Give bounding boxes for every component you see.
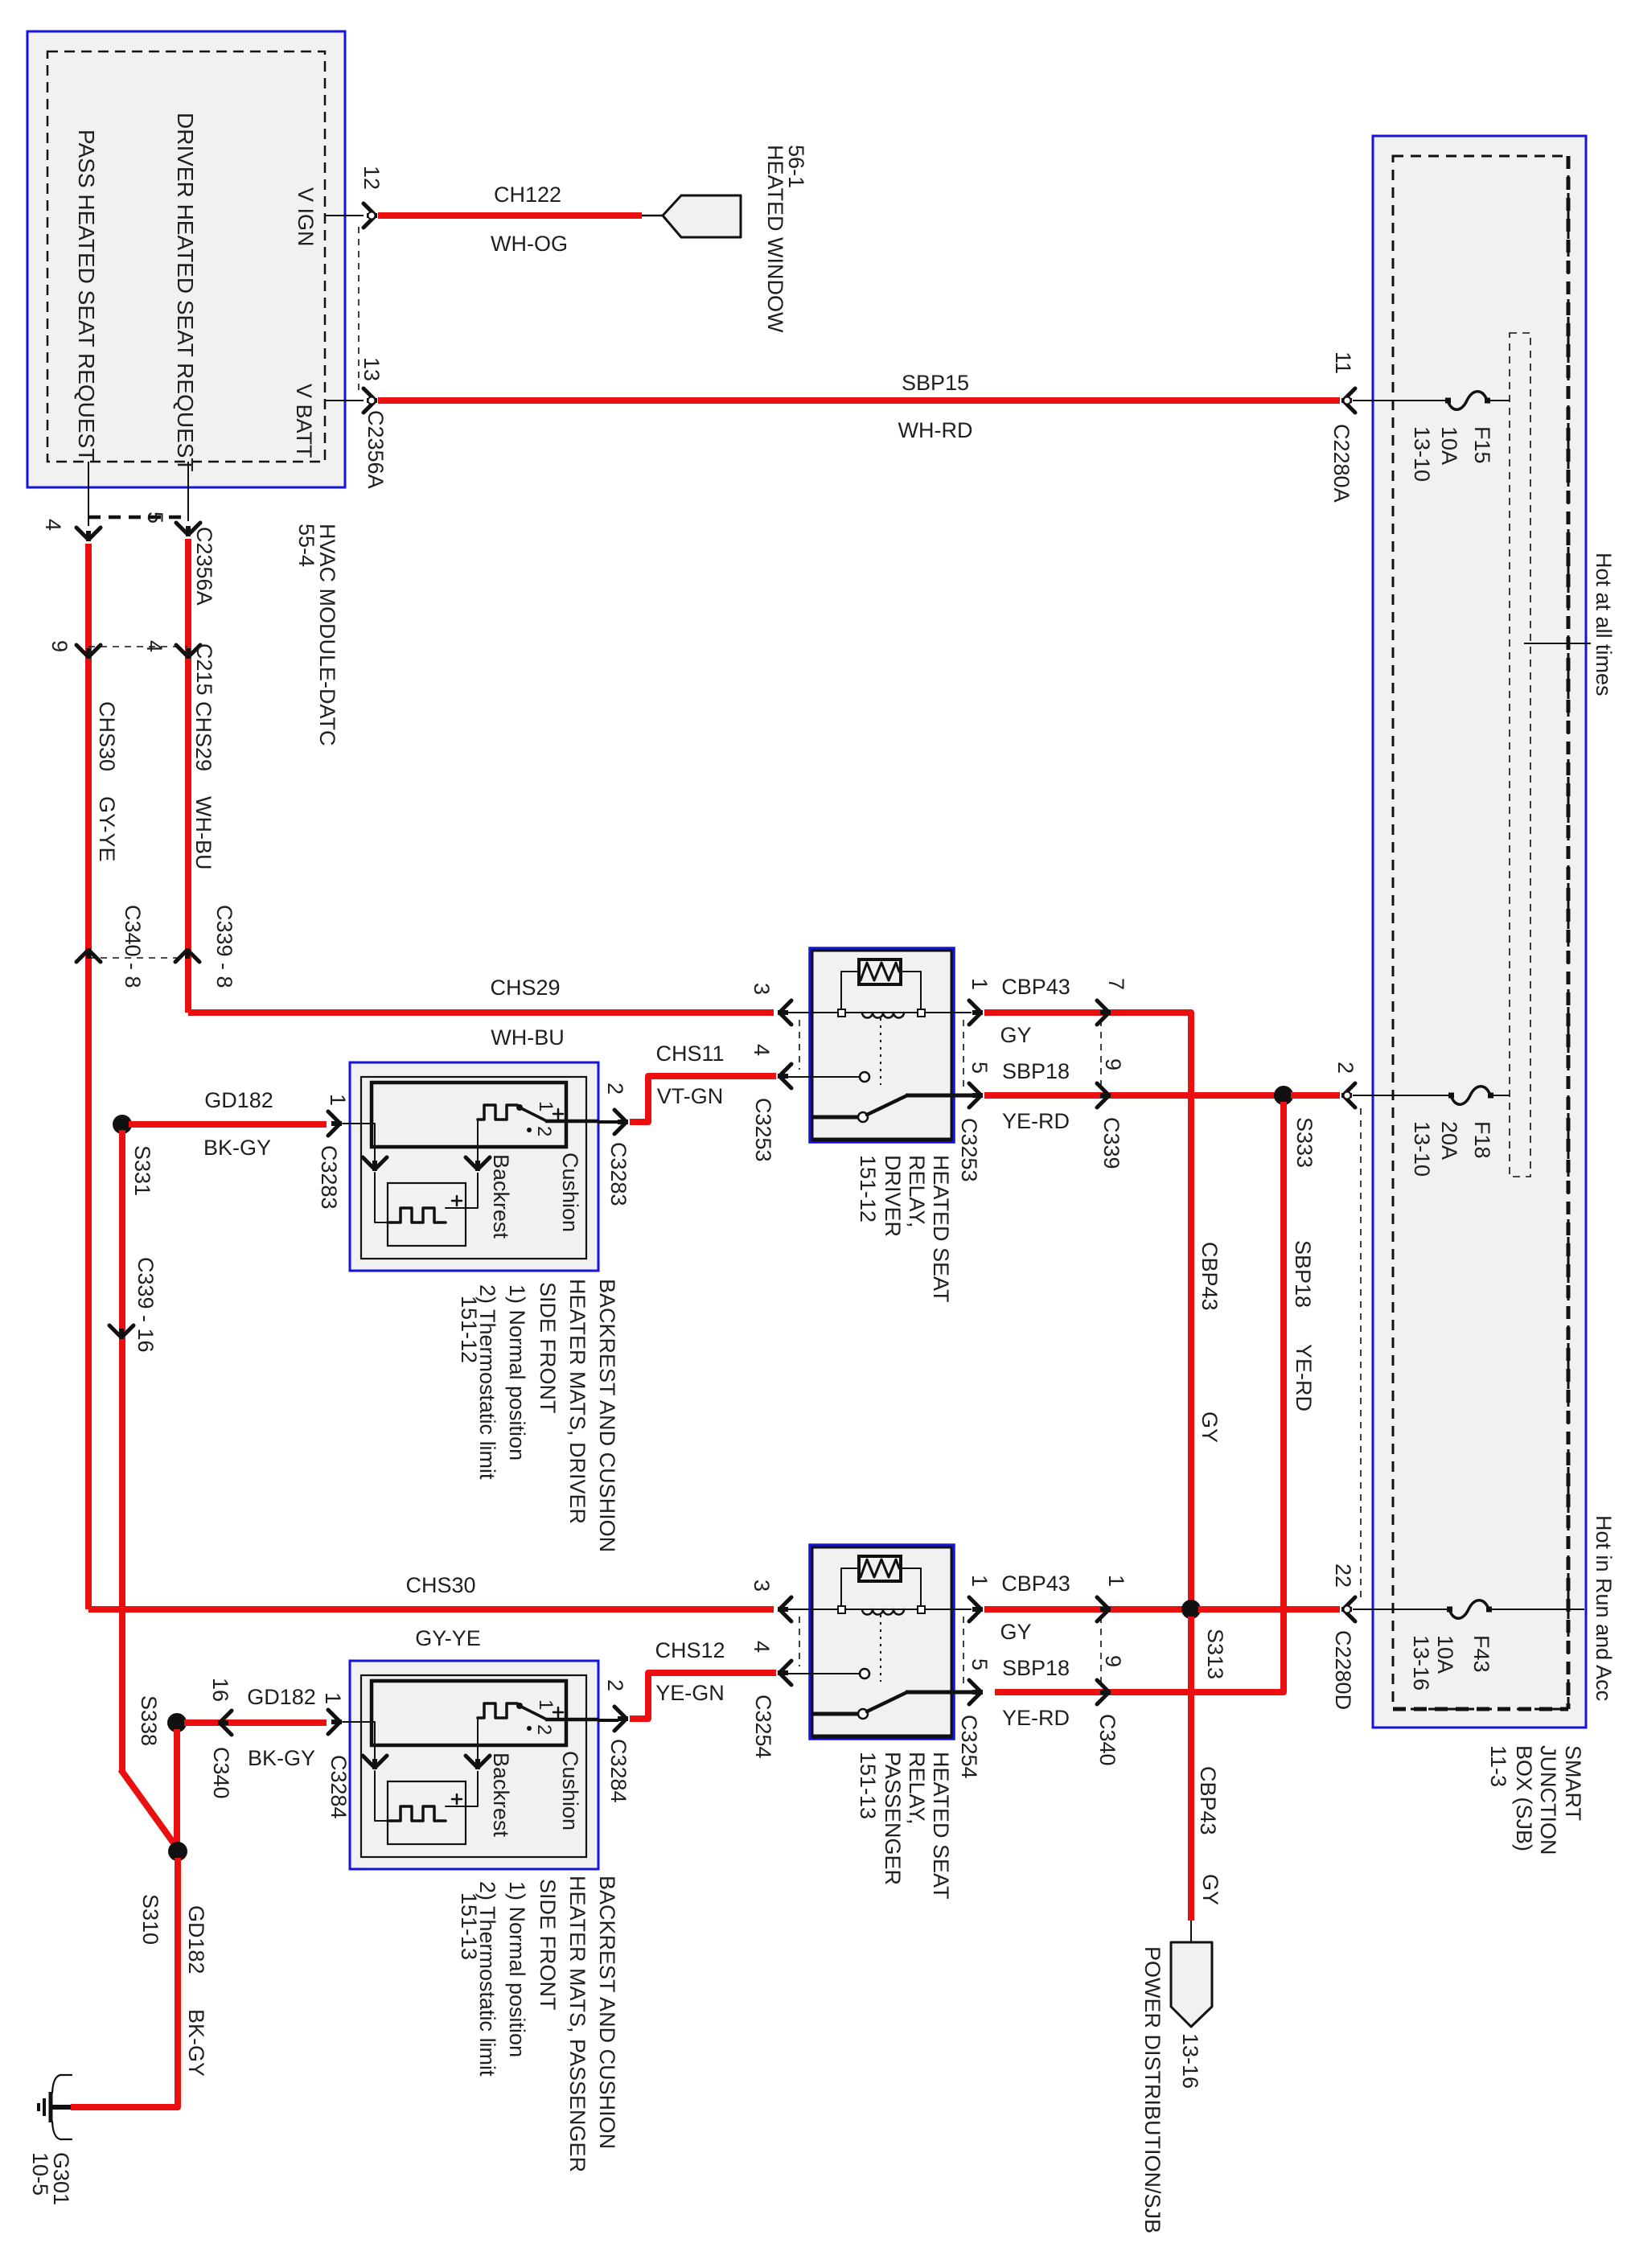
svg-text:F43: F43	[1469, 1635, 1493, 1673]
svg-text:YE-RD: YE-RD	[1292, 1344, 1316, 1411]
svg-text:SIDE FRONT: SIDE FRONT	[536, 1879, 560, 2011]
svg-text:Hot at all times: Hot at all times	[1592, 553, 1616, 696]
hot-at-all-times tick line	[1524, 643, 1591, 644]
HVAC module inner dashed outline	[47, 51, 325, 462]
svg-text:SIDE FRONT: SIDE FRONT	[536, 1282, 560, 1414]
F15 lead wire right	[1489, 400, 1510, 401]
connector arrow C339-7	[1097, 1000, 1107, 1025]
passenger cushion internal connector arrow left	[363, 1756, 387, 1766]
splice S338	[167, 1713, 187, 1732]
connector arrow C339-16	[109, 1325, 134, 1336]
svg-text:GY-YE: GY-YE	[415, 1626, 481, 1650]
connector arrow C340-16	[221, 1711, 232, 1735]
wire S338 to S310 (red)	[174, 1729, 180, 1847]
HVAC module DATC box	[27, 31, 345, 487]
svg-text:151-13: 151-13	[457, 1892, 481, 1960]
dashed connector group line C3253 pins 1-5 (driver)	[963, 1020, 964, 1087]
dashed connector group line C3254 pins 3-4	[799, 1617, 800, 1666]
svg-text:1: 1	[968, 1575, 992, 1587]
splice S331	[113, 1115, 132, 1134]
svg-text:11: 11	[1331, 351, 1355, 374]
svg-text:1: 1	[535, 1699, 557, 1710]
svg-text:BACKREST AND CUSHION: BACKREST AND CUSHION	[595, 1876, 619, 2149]
svg-text:Backrest: Backrest	[489, 1154, 513, 1239]
svg-text:9: 9	[1101, 1655, 1125, 1667]
svg-text:1: 1	[1104, 1575, 1128, 1587]
ground G301 symbol	[50, 2105, 71, 2110]
svg-text:C3283: C3283	[317, 1145, 341, 1210]
svg-text:SBP18: SBP18	[1291, 1240, 1315, 1308]
pin 5 connector arrow C2356A-5	[176, 523, 200, 533]
wire CBP43 GY (red, driver relay pin1)	[984, 1013, 1191, 1609]
connector arrow C340-1	[1097, 1597, 1107, 1621]
svg-text:10A: 10A	[1437, 426, 1461, 465]
svg-text:YE-RD: YE-RD	[1002, 1706, 1070, 1730]
svg-text:HEATED SEAT: HEATED SEAT	[929, 1752, 953, 1900]
passenger cushion mat inner outline	[361, 1675, 586, 1857]
relay K1 HEATED SEAT RELAY DRIVER switch common and blade	[813, 1116, 858, 1120]
svg-text:S313: S313	[1203, 1629, 1227, 1679]
fuse F15 10A	[1448, 392, 1487, 410]
driver backrest backrest element box	[388, 1183, 466, 1246]
svg-text:WH-BU: WH-BU	[491, 1025, 564, 1050]
svg-text:GY: GY	[1198, 1411, 1222, 1443]
connector arrow C340-9	[1097, 1680, 1107, 1704]
svg-text:151-13: 151-13	[856, 1752, 880, 1819]
pin 5 lead wire	[187, 462, 189, 521]
relay K2 HEATED SEAT RELAY PASSENGER actuation dotted line	[880, 1615, 881, 1682]
off-page connector HEATED WINDOW (pentagon)	[663, 195, 741, 237]
dashed connector group line C3254 pins 1-5	[963, 1617, 964, 1684]
dashed connector group line C340/C339-8	[88, 957, 187, 959]
svg-text:3: 3	[750, 1580, 774, 1592]
svg-text:2: 2	[603, 1679, 627, 1691]
svg-text:Backrest: Backrest	[489, 1752, 513, 1838]
svg-text:SMART: SMART	[1561, 1745, 1585, 1821]
passenger cushion cushion element box	[372, 1681, 566, 1745]
relay K2 HEATED SEAT RELAY PASSENGER heater element leads	[841, 1568, 921, 1607]
relay K2 HEATED SEAT RELAY PASSENGER heater element (resistor)	[859, 1556, 901, 1581]
wire CBP43 (red, S313 to SJB pin 22)	[1198, 1606, 1340, 1613]
driver mat pin 1 connector arrow C3283-1	[328, 1111, 339, 1136]
driver cushion internal connector arrow right	[466, 1157, 490, 1168]
pin 12 connector arrow C2356A-12	[364, 203, 374, 228]
passenger cushion cushion heater element (square wave)	[478, 1703, 517, 1718]
dashed connector group line C215	[88, 646, 187, 647]
svg-text:JUNCTION: JUNCTION	[1536, 1745, 1560, 1855]
svg-text:C3253: C3253	[957, 1118, 981, 1182]
driver cushion wires to backrest element	[375, 1173, 388, 1222]
svg-text:YE-RD: YE-RD	[1002, 1109, 1070, 1133]
splice S313	[1181, 1600, 1201, 1619]
wire CHS30 GY-YE vertical (red)	[85, 544, 92, 1609]
svg-text:Cushion: Cushion	[558, 1152, 582, 1232]
svg-text:CHS30: CHS30	[405, 1573, 475, 1597]
driver cushion cushion element box	[372, 1083, 566, 1147]
SJB outer dashed outline bold right edge	[1567, 156, 1571, 1709]
svg-text:PASS HEATED SEAT REQUEST: PASS HEATED SEAT REQUEST	[74, 129, 99, 462]
svg-text:S333: S333	[1292, 1117, 1317, 1168]
svg-text:C3283: C3283	[606, 1142, 631, 1206]
relay K2 HEATED SEAT RELAY PASSENGER switch common and blade	[813, 1712, 858, 1716]
wire CHS29 WH-BU horizontal (red)	[188, 1009, 774, 1016]
passenger cushion pin1 entry wire	[343, 1722, 375, 1759]
heated window lead	[642, 215, 664, 217]
svg-text:POWER DISTRIBUTION/SJB: POWER DISTRIBUTION/SJB	[1140, 1946, 1165, 2233]
passenger mat pin 2 connector arrow C3284-2	[614, 1707, 625, 1731]
passenger mat pin 1 connector arrow C3284-1	[328, 1710, 339, 1734]
svg-text:C2356A: C2356A	[364, 410, 388, 489]
svg-text:CBP43: CBP43	[1198, 1242, 1222, 1311]
svg-text:3: 3	[750, 983, 774, 995]
connector arrow C340-8	[76, 951, 101, 962]
relay pin 5 connector arrow C3254-5	[969, 1680, 980, 1704]
driver backrest plus mark	[452, 1196, 462, 1206]
svg-text:C3254: C3254	[751, 1695, 775, 1759]
F43 lead wire right	[1490, 1609, 1584, 1610]
svg-text:WH-RD: WH-RD	[898, 418, 973, 442]
fuse F18 20A	[1451, 1087, 1490, 1105]
svg-text:DRIVER HEATED SEAT REQUEST: DRIVER HEATED SEAT REQUEST	[173, 113, 198, 472]
pin 3 lead into passenger relay	[788, 1609, 813, 1610]
svg-text:2: 2	[533, 1724, 555, 1735]
svg-text:20A: 20A	[1437, 1121, 1461, 1160]
SJB internal bus dashed rect	[1510, 333, 1530, 1177]
svg-text:HEATER MATS, PASSENGER: HEATER MATS, PASSENGER	[565, 1876, 590, 2172]
svg-text:GD182: GD182	[204, 1088, 273, 1112]
svg-text:F15: F15	[1470, 426, 1494, 464]
passenger backrest element right connection	[446, 1806, 478, 1807]
svg-text:C339 - 8: C339 - 8	[212, 905, 236, 988]
svg-text:RELAY,: RELAY,	[905, 1752, 929, 1825]
passenger cushion mat box	[350, 1661, 598, 1869]
svg-text:4: 4	[750, 1641, 774, 1653]
svg-text:C340: C340	[1095, 1714, 1120, 1766]
wire SBP18 YE-RD (red, driver relay pin5 to S333)	[984, 1092, 1284, 1099]
relay K2 HEATED SEAT RELAY PASSENGER coil pads	[838, 1606, 845, 1613]
wire CHS12 YE-GN (red)	[630, 1673, 776, 1719]
svg-text:WH-BU: WH-BU	[191, 796, 216, 869]
svg-text:BACKREST AND CUSHION: BACKREST AND CUSHION	[595, 1279, 619, 1552]
svg-text:Hot in Run and Acc: Hot in Run and Acc	[1592, 1515, 1616, 1701]
driver backrest backrest heater element (square wave)	[388, 1208, 446, 1222]
svg-text:DRIVER: DRIVER	[881, 1155, 905, 1237]
svg-text:GY-YE: GY-YE	[95, 796, 119, 862]
relay K1 HEATED SEAT RELAY DRIVER coil	[862, 1013, 904, 1018]
svg-text:55-4: 55-4	[294, 524, 318, 567]
passenger cushion internal connector arrow right	[466, 1756, 490, 1766]
svg-text:151-12: 151-12	[457, 1296, 481, 1363]
connector arrow C215-9	[76, 645, 101, 655]
bold dashed connector group line pins 4-5	[88, 516, 187, 520]
svg-text:HEATED SEAT: HEATED SEAT	[929, 1155, 953, 1303]
svg-text:GY: GY	[1000, 1620, 1031, 1644]
svg-text:13-16: 13-16	[1409, 1635, 1433, 1691]
driver cushion thermostat pivot and blade	[516, 1104, 523, 1111]
dashed connector group line C340 pins 1-9	[1100, 1617, 1102, 1686]
svg-text:GY: GY	[1000, 1023, 1031, 1047]
svg-text:9: 9	[47, 640, 72, 652]
svg-text:10A: 10A	[1433, 1635, 1457, 1674]
svg-text:C2280A: C2280A	[1329, 424, 1354, 503]
relay pin 5 connector arrow C3253-5	[969, 1083, 980, 1107]
driver cushion mat box	[350, 1062, 598, 1271]
wire GD182 BK-GY to ground (red)	[71, 1858, 178, 2107]
pin 4 connector arrow C2356A-4	[76, 528, 101, 538]
passenger backrest backrest element box	[388, 1781, 466, 1844]
driver backrest element right connection	[446, 1207, 478, 1209]
pin 13 lead wire	[325, 400, 364, 401]
connector arrow C339-8	[175, 951, 199, 962]
svg-text:CBP43: CBP43	[1001, 975, 1070, 999]
svg-text:WH-OG: WH-OG	[491, 232, 568, 256]
relay K1 HEATED SEAT RELAY DRIVER actuation dotted line	[880, 1018, 881, 1085]
svg-text:13-16: 13-16	[1178, 2033, 1202, 2089]
relay K1 HEATED SEAT RELAY DRIVER coil line pin3-pin1	[810, 1012, 954, 1013]
wire GD182 BK-GY (red, S338 to C3284-1)	[184, 1719, 327, 1726]
dashed connector group line C3253 pins 3-4 (driver)	[799, 1020, 800, 1070]
splice S333	[1274, 1086, 1293, 1105]
svg-text:1: 1	[326, 1094, 350, 1106]
driver mat pin 2 connector arrow C3283-2	[614, 1110, 625, 1134]
svg-text:C3253: C3253	[751, 1098, 775, 1162]
F43 lead wire left	[1353, 1609, 1449, 1610]
svg-text:1: 1	[968, 978, 992, 990]
wire CBP43 GY vertical (red, S313 down)	[1188, 1617, 1194, 1921]
svg-text:GD182: GD182	[247, 1685, 316, 1709]
passenger backrest plus mark	[452, 1794, 462, 1804]
svg-text:9: 9	[1101, 1058, 1125, 1070]
relay pin 4 connector arrow C3253-4	[781, 1064, 791, 1088]
svg-text:V IGN: V IGN	[294, 187, 318, 247]
wire CHS29 WH-BU vertical (red)	[185, 539, 191, 1013]
svg-text:SBP18: SBP18	[1002, 1656, 1070, 1680]
svg-text:4: 4	[41, 519, 65, 531]
svg-text:CHS12: CHS12	[655, 1638, 725, 1662]
relay K2 HEATED SEAT RELAY PASSENGER coil line pin3-pin1	[810, 1609, 954, 1610]
svg-text:2: 2	[603, 1083, 627, 1095]
svg-text:13-10: 13-10	[1410, 426, 1434, 482]
relay K2 HEATED SEAT RELAY PASSENGER switch fixed contact	[810, 1673, 859, 1674]
svg-text:V BATT: V BATT	[292, 384, 316, 458]
svg-text:VT-GN: VT-GN	[657, 1084, 724, 1108]
svg-text:C3254: C3254	[957, 1715, 981, 1779]
fuse F43 10A	[1449, 1600, 1489, 1619]
wire SBP18 (red, S333 to SJB pin 2)	[1291, 1092, 1340, 1099]
svg-text:C340 - 8: C340 - 8	[121, 905, 145, 988]
connector arrow C339-9	[1097, 1083, 1107, 1107]
svg-text:S331: S331	[130, 1145, 154, 1196]
relay pin 3 connector arrow C3253-3	[781, 1000, 791, 1025]
power distribution lead	[1190, 1921, 1192, 1943]
svg-text:S338: S338	[137, 1695, 161, 1746]
svg-text:BOX (SJB): BOX (SJB)	[1512, 1745, 1536, 1851]
pin 4 lead wire	[88, 462, 89, 526]
relay pin 1 connector arrow C3253-1	[969, 1000, 980, 1025]
wire CHS30 GY-YE horizontal (red)	[88, 1606, 774, 1613]
wire CBP43 GY (red, passenger relay pin1 to S313)	[984, 1606, 1184, 1613]
svg-text:CBP43: CBP43	[1001, 1572, 1070, 1596]
svg-text:HEATER MATS, DRIVER: HEATER MATS, DRIVER	[565, 1279, 590, 1524]
driver cushion switch position 2 mark	[527, 1128, 532, 1132]
svg-text:1) Normal position: 1) Normal position	[505, 1881, 529, 2057]
SJB pin 22 connector arrow C2280D-22	[1345, 1597, 1355, 1621]
svg-text:SBP15: SBP15	[902, 371, 969, 395]
passenger cushion output wire to pin 2	[545, 1718, 598, 1722]
driver cushion cushion heater element (square wave)	[478, 1105, 517, 1120]
svg-text:C2280D: C2280D	[1331, 1630, 1355, 1710]
svg-text:HEATED WINDOW: HEATED WINDOW	[763, 145, 787, 333]
svg-text:BK-GY: BK-GY	[184, 2009, 208, 2077]
svg-text:C340: C340	[209, 1747, 233, 1799]
driver cushion output wire to pin 2	[545, 1120, 598, 1124]
passenger cushion cushion element drop wire	[477, 1718, 479, 1759]
svg-text:GY: GY	[1198, 1874, 1222, 1905]
svg-text:2: 2	[1333, 1062, 1358, 1074]
svg-text:5: 5	[968, 1062, 992, 1074]
svg-text:C339 - 16: C339 - 16	[134, 1257, 158, 1353]
dashed connector group line pins 12-13	[358, 227, 359, 394]
dashed connector group line pins 2-22	[1360, 1108, 1362, 1597]
svg-text:5: 5	[968, 1658, 992, 1670]
SJB pin 2 connector arrow C2280A-2	[1345, 1083, 1355, 1107]
svg-text:GD182: GD182	[184, 1905, 208, 1974]
relay K2 HEATED SEAT RELAY PASSENGER box	[810, 1545, 954, 1739]
passenger backrest backrest heater element (square wave)	[388, 1806, 446, 1821]
pin 13 connector arrow C2356A-13	[364, 388, 374, 413]
SJB outer dashed outline bold bottom edge	[1393, 1707, 1568, 1711]
svg-text:F18: F18	[1470, 1121, 1494, 1159]
connector arrow C215-4	[176, 645, 200, 655]
driver cushion internal connector arrow left	[363, 1157, 387, 1168]
wire GD182 BK-GY (red, S331 to C3283-1)	[129, 1121, 327, 1128]
wire SBP18 YE-RD vertical (red, S333 down)	[995, 1102, 1284, 1692]
svg-text:151-12: 151-12	[856, 1155, 880, 1222]
svg-text:PASSENGER: PASSENGER	[881, 1752, 905, 1885]
pin 3 lead into relay	[788, 1012, 813, 1013]
svg-text:CHS29: CHS29	[490, 976, 560, 1000]
relay K1 HEATED SEAT RELAY DRIVER heater element leads	[841, 972, 921, 1010]
wire C339-16 vertical (red)	[119, 1130, 125, 1772]
splice S310	[168, 1842, 187, 1861]
driver cushion mat inner outline	[361, 1077, 586, 1259]
relay K1 HEATED SEAT RELAY DRIVER heater element (resistor)	[859, 959, 901, 984]
passenger cushion wires to backrest element	[375, 1771, 388, 1821]
svg-text:CBP43: CBP43	[1196, 1766, 1220, 1835]
svg-text:CHS11: CHS11	[655, 1042, 724, 1066]
relay pin 1 connector arrow C3254-1	[969, 1597, 980, 1621]
svg-text:22: 22	[1331, 1563, 1355, 1588]
relay K2 HEATED SEAT RELAY PASSENGER coil	[862, 1609, 904, 1615]
wire CHS11 VT-GN (red)	[630, 1076, 776, 1122]
Smart Junction Box (SJB)	[1373, 136, 1586, 1728]
pin 12 lead wire	[325, 215, 364, 216]
relay pin 4 connector arrow C3254-4	[781, 1661, 791, 1685]
svg-text:4: 4	[750, 1044, 774, 1056]
svg-text:C3284: C3284	[327, 1755, 351, 1819]
driver cushion cushion element drop wire	[477, 1120, 479, 1161]
relay K1 HEATED SEAT RELAY DRIVER switch fixed contact	[810, 1076, 859, 1078]
svg-text:C2356A: C2356A	[192, 527, 216, 606]
svg-text:13-10: 13-10	[1410, 1121, 1434, 1177]
svg-text:SBP18: SBP18	[1002, 1059, 1070, 1083]
svg-text:BK-GY: BK-GY	[248, 1746, 315, 1770]
svg-text:13: 13	[359, 357, 384, 381]
SJB outer dashed outline	[1393, 156, 1568, 1709]
svg-text:1: 1	[321, 1692, 345, 1704]
SJB pin 11 connector arrow C2280A-11	[1345, 388, 1355, 413]
off-page connector POWER DISTRIBUTION/SJB (pentagon)	[1171, 1942, 1212, 2027]
svg-text:16: 16	[208, 1678, 232, 1702]
svg-text:10-5: 10-5	[28, 2152, 52, 2196]
svg-text:11-3: 11-3	[1486, 1745, 1510, 1787]
wire diagonal to S310 (red)	[121, 1769, 176, 1847]
svg-text:RELAY,: RELAY,	[905, 1155, 929, 1228]
svg-text:BK-GY: BK-GY	[203, 1136, 271, 1160]
svg-text:CHS29: CHS29	[191, 701, 216, 771]
F15 lead wire left	[1353, 400, 1448, 401]
svg-text:1: 1	[535, 1101, 557, 1111]
passenger cushion switch position 2 mark	[527, 1726, 532, 1731]
svg-text:1) Normal position: 1) Normal position	[505, 1284, 529, 1461]
svg-text:YE-GN: YE-GN	[655, 1681, 725, 1705]
svg-text:C339: C339	[1099, 1117, 1124, 1169]
passenger cushion thermostat pivot and blade	[516, 1703, 523, 1709]
F18 lead wire left	[1353, 1095, 1451, 1096]
driver cushion pin1 entry wire	[343, 1124, 375, 1161]
svg-text:Cushion: Cushion	[558, 1751, 582, 1830]
dashed connector group line C339 pins 7-9	[1100, 1020, 1102, 1089]
relay pin 1 lead (driver)	[954, 1012, 972, 1013]
svg-text:CHS30: CHS30	[95, 701, 119, 771]
wire CH122 WH-OG (red)	[378, 212, 642, 219]
svg-text:CH122: CH122	[494, 183, 561, 207]
relay pin 1 lead (passenger)	[954, 1609, 972, 1610]
svg-text:12: 12	[359, 166, 384, 190]
svg-text:2: 2	[533, 1126, 555, 1136]
svg-text:C215: C215	[192, 643, 216, 696]
svg-text:C3284: C3284	[606, 1739, 631, 1803]
relay K1 HEATED SEAT RELAY DRIVER box	[810, 948, 954, 1142]
wire SBP15 WH-RD (red)	[378, 397, 1340, 404]
relay K1 HEATED SEAT RELAY DRIVER coil pads	[838, 1009, 845, 1017]
svg-text:S310: S310	[138, 1894, 162, 1945]
svg-text:7: 7	[1104, 978, 1128, 990]
F18 lead wire right	[1492, 1095, 1510, 1096]
passenger relay pin 3 connector arrow C3254-3	[781, 1597, 791, 1621]
